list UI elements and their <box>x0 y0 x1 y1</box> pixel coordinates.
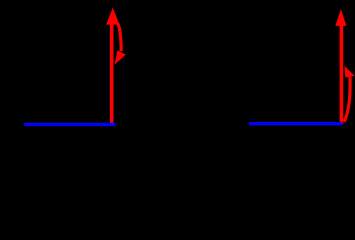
left vector arrow shaft <box>110 23 114 125</box>
right vector arrow shaft <box>340 24 344 124</box>
left vector arrowhead <box>106 8 119 25</box>
left baseline (blue surface line) <box>24 123 115 126</box>
right baseline (blue surface line) <box>249 122 343 125</box>
left rotation arc (curved arrow, arrowhead at bottom) <box>115 24 126 65</box>
right vector arrowhead <box>335 9 346 26</box>
right rotation arc (curved arrow, arrowhead at top) <box>344 66 354 122</box>
